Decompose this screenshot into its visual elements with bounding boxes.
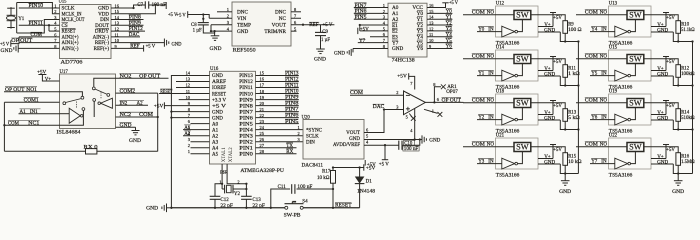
svg-text:SW: SW bbox=[629, 143, 642, 152]
wire to DAC SCLK pin 2 bbox=[256, 131, 304, 136]
wire V+ pin of U15 to +5V bbox=[651, 57, 675, 72]
wire COM loop left bbox=[3, 102, 85, 151]
svg-text:Y2: Y2 bbox=[446, 21, 453, 26]
svg-text:DAC: DAC bbox=[373, 105, 385, 110]
net A1 to IN1 bbox=[19, 109, 60, 115]
svg-text:1 µF: 1 µF bbox=[193, 28, 202, 33]
svg-text:REF(-): REF(-) bbox=[95, 41, 110, 46]
power +5V at AIN2 bbox=[0, 37, 19, 47]
svg-text:V+: V+ bbox=[657, 67, 664, 72]
svg-text:R17: R17 bbox=[322, 170, 331, 175]
74HC138 pin numbers bbox=[383, 3, 434, 49]
svg-text:+5V: +5V bbox=[553, 104, 562, 109]
svg-text:COM1: COM1 bbox=[24, 98, 40, 103]
74HC138 pin names bbox=[392, 5, 424, 52]
op-amp pin 1 no-connect bbox=[424, 109, 442, 117]
net COM1 pin bbox=[4, 97, 59, 103]
net Y1 IN into U14 bbox=[477, 70, 502, 76]
svg-text:COM: COM bbox=[472, 98, 486, 103]
svg-text:12: 12 bbox=[186, 83, 190, 88]
wire SW control of U12 bbox=[518, 20, 523, 32]
svg-text:NO: NO bbox=[600, 142, 608, 147]
switch ch1 NC contact bbox=[60, 108, 85, 126]
svg-text:PIN13: PIN13 bbox=[285, 72, 299, 77]
svg-text:21: 21 bbox=[260, 107, 264, 112]
power +5V at VIN bbox=[177, 11, 210, 18]
svg-text:SW: SW bbox=[629, 55, 642, 64]
wire U22 column to ground bbox=[677, 174, 679, 181]
svg-text:SW: SW bbox=[629, 99, 642, 108]
ground at AIN1(-) pin 8 bbox=[1, 44, 60, 54]
svg-text:COM: COM bbox=[472, 142, 486, 147]
svg-text:11: 11 bbox=[186, 89, 190, 94]
net Y5 IN into U15 bbox=[590, 70, 615, 76]
svg-text:R9: R9 bbox=[568, 22, 574, 27]
ground below U17 bbox=[129, 131, 141, 145]
svg-text:Y2: Y2 bbox=[234, 192, 241, 197]
svg-text:Y6: Y6 bbox=[446, 45, 453, 50]
net REF +5V on VOUT pin 6 bbox=[291, 22, 334, 28]
svg-text:GND: GND bbox=[210, 47, 222, 52]
ATMEGA XTAL pin names bbox=[222, 147, 234, 162]
net IN2 to A2 bbox=[116, 100, 149, 106]
inverter of U15 bbox=[615, 70, 631, 81]
svg-text:PIN11: PIN11 bbox=[285, 84, 299, 89]
wire R9 bottom junction bbox=[564, 33, 580, 42]
wire Y1 top to MCLK_IN pin 2 bbox=[17, 3, 60, 14]
svg-text:U16: U16 bbox=[210, 67, 219, 72]
switch ch1 NO contact bbox=[60, 92, 84, 99]
IC U14 TS5A3166 switch body bbox=[496, 45, 539, 90]
svg-text:PIN12: PIN12 bbox=[285, 78, 299, 83]
wire GND pin of U19 bbox=[651, 116, 678, 129]
wire E3 stub bbox=[370, 36, 388, 38]
AD7706 right pin numbers 16-9 bbox=[115, 3, 120, 48]
inverter of U14 bbox=[502, 70, 518, 81]
power +5V top right bbox=[166, 2, 178, 18]
wire SW output of U19 bbox=[644, 103, 678, 109]
IC U15 TS5A3166 switch body bbox=[609, 45, 652, 90]
svg-text:GND: GND bbox=[212, 116, 223, 121]
svg-text:NO: NO bbox=[600, 10, 608, 15]
svg-text:V+: V+ bbox=[544, 23, 551, 28]
svg-text:SW-PB: SW-PB bbox=[284, 214, 302, 219]
svg-text:+5V: +5V bbox=[666, 104, 675, 109]
svg-text:PIN11: PIN11 bbox=[29, 22, 44, 27]
wire SW control of U15 bbox=[631, 64, 636, 76]
wire IOREF stub bbox=[176, 87, 210, 89]
svg-text:*SYNC: *SYNC bbox=[306, 128, 323, 133]
wire GND pin of U14 bbox=[538, 72, 565, 85]
svg-text:OP OUT: OP OUT bbox=[11, 39, 32, 44]
switch box SW of U21 bbox=[514, 143, 531, 152]
wire U17 GND pin bbox=[116, 123, 136, 131]
power +5V at pin 9 bbox=[154, 102, 210, 109]
svg-text:COM: COM bbox=[585, 10, 599, 15]
net A2 to pin 4 bbox=[183, 131, 210, 137]
power +5V reset bbox=[364, 164, 376, 171]
svg-text:V+: V+ bbox=[544, 67, 551, 72]
net Y3 IN into U21 bbox=[477, 158, 502, 164]
wire to DAC SYNC pin 1 bbox=[256, 125, 304, 130]
svg-text:GND: GND bbox=[657, 72, 668, 77]
svg-text:V+: V+ bbox=[657, 23, 664, 28]
net RESET to pin 11 bbox=[159, 89, 210, 95]
ground of U21 column bbox=[559, 181, 571, 195]
svg-text:NO: NO bbox=[487, 98, 495, 103]
net COM NO into U15 bbox=[576, 53, 627, 59]
svg-text:REF: REF bbox=[309, 23, 318, 28]
net PIN5 to A2 bbox=[354, 15, 388, 21]
svg-text:U12: U12 bbox=[496, 1, 505, 6]
svg-text:IN1: IN1 bbox=[30, 110, 38, 115]
svg-text:IN: IN bbox=[488, 27, 494, 32]
inverter of U19 bbox=[615, 114, 631, 125]
wire GND pin of U18 bbox=[538, 116, 565, 129]
svg-text:A2: A2 bbox=[212, 134, 219, 139]
buffer triangle ch1 bbox=[69, 108, 83, 123]
svg-text:PIN0: PIN0 bbox=[239, 152, 253, 157]
svg-text:AIN2(+): AIN2(+) bbox=[62, 35, 79, 40]
net PIN7 to A0 bbox=[354, 3, 388, 9]
svg-text:COM: COM bbox=[472, 54, 486, 59]
resistor R14 510kΩ bbox=[676, 109, 695, 122]
svg-text:PIN1: PIN1 bbox=[239, 146, 253, 151]
wire to C12 bbox=[215, 183, 223, 196]
svg-text:22 pF: 22 pF bbox=[252, 204, 265, 209]
svg-text:TS5A3166: TS5A3166 bbox=[496, 174, 520, 179]
svg-text:C11: C11 bbox=[278, 185, 287, 190]
svg-text:GND: GND bbox=[314, 58, 326, 63]
svg-text:C12: C12 bbox=[220, 198, 229, 203]
svg-text:SW: SW bbox=[629, 11, 642, 20]
svg-text:SCLK: SCLK bbox=[62, 7, 75, 12]
resistor R12 100kΩ bbox=[676, 65, 695, 78]
switch box SW of U12 bbox=[514, 11, 531, 20]
svg-text:Y6: Y6 bbox=[591, 115, 598, 120]
svg-text:VOUT: VOUT bbox=[272, 22, 287, 28]
svg-text:IN: IN bbox=[601, 27, 607, 32]
svg-text:DRDY: DRDY bbox=[95, 30, 110, 35]
ground at 74HC138 GND pin bbox=[334, 48, 388, 56]
svg-text:Y6: Y6 bbox=[417, 46, 424, 52]
svg-text:AIN2(-): AIN2(-) bbox=[93, 35, 110, 40]
svg-text:A1: A1 bbox=[212, 128, 219, 133]
svg-text:GND: GND bbox=[146, 206, 158, 211]
svg-text:74HC138: 74HC138 bbox=[392, 57, 415, 63]
net Y2 IN into U18 bbox=[477, 114, 502, 120]
net Y4 IN into U13 bbox=[590, 26, 615, 32]
svg-text:Y4: Y4 bbox=[446, 33, 453, 38]
wire R10 bottom junction bbox=[677, 33, 694, 42]
svg-text:GND: GND bbox=[544, 160, 555, 165]
svg-text:+5V: +5V bbox=[666, 148, 675, 153]
svg-text:GND: GND bbox=[559, 190, 571, 195]
IC U15 AD7706 body bbox=[59, 0, 112, 65]
svg-text:AIN1(-): AIN1(-) bbox=[62, 47, 79, 52]
wire R12 bottom junction bbox=[677, 77, 694, 86]
svg-text:XTAL2: XTAL2 bbox=[229, 147, 234, 162]
net COM NO into U21 bbox=[463, 141, 514, 147]
IC REF5050 body bbox=[232, 2, 291, 53]
svg-text:51.1kΩ: 51.1kΩ bbox=[681, 28, 695, 33]
svg-text:PIN8: PIN8 bbox=[239, 104, 253, 109]
AD7706 left pin numbers 1-8 bbox=[54, 3, 57, 48]
net Y7 output bbox=[358, 39, 388, 44]
net PIN11 to CS pin 4 bbox=[19, 21, 60, 27]
IC U20 DAC8411 body bbox=[302, 115, 365, 168]
switch box SW of U14 bbox=[514, 55, 531, 64]
svg-text:A1: A1 bbox=[184, 126, 191, 131]
svg-text:TEMP: TEMP bbox=[237, 22, 251, 28]
capacitor C12 22pF bbox=[210, 196, 233, 209]
net PIN9 on DOUT pin 13 bbox=[111, 20, 144, 26]
net RX pin 28 bbox=[256, 149, 297, 155]
svg-text:22: 22 bbox=[260, 113, 264, 118]
wire R14 bottom junction bbox=[677, 121, 694, 130]
net COM NO into U19 bbox=[576, 97, 627, 103]
svg-text:PIN5: PIN5 bbox=[239, 122, 253, 127]
svg-text:RESET: RESET bbox=[160, 90, 172, 95]
wire V+ pin of U18 to +5V bbox=[538, 101, 562, 116]
svg-text:RESET: RESET bbox=[62, 30, 76, 35]
svg-text:PIN6: PIN6 bbox=[355, 10, 368, 15]
svg-text:DIN: DIN bbox=[100, 18, 109, 23]
svg-text:SW: SW bbox=[516, 143, 529, 152]
net COM2 pin bbox=[116, 88, 158, 94]
svg-text:TRIM/NR: TRIM/NR bbox=[264, 29, 286, 35]
resistor R16 1.5MΩ bbox=[676, 153, 695, 166]
svg-text:2: 2 bbox=[188, 143, 190, 148]
switch ch2 NC contact bbox=[93, 99, 96, 118]
wire TRIM pin5 stub bbox=[291, 30, 297, 32]
svg-text:1N4148: 1N4148 bbox=[357, 189, 376, 194]
svg-text:V+: V+ bbox=[657, 155, 664, 160]
svg-text:GND: GND bbox=[212, 110, 223, 115]
svg-text:PIN8: PIN8 bbox=[129, 16, 142, 21]
capacitor C8 1uF bbox=[191, 15, 209, 34]
wire GND pin16 riser bbox=[111, 5, 145, 9]
svg-text:PIN6: PIN6 bbox=[239, 116, 253, 121]
svg-text:22 pF: 22 pF bbox=[220, 204, 233, 209]
svg-text:V+: V+ bbox=[544, 111, 551, 116]
svg-text:+5V: +5V bbox=[360, 28, 369, 33]
svg-text:D1: D1 bbox=[366, 179, 373, 184]
svg-text:GND: GND bbox=[129, 139, 141, 144]
svg-text:SW: SW bbox=[516, 11, 529, 20]
net PIN12 on DRDY pin 12 bbox=[111, 26, 145, 32]
capacitor C11 100nF bbox=[278, 184, 313, 194]
nets Y0-Y6 outputs bbox=[427, 9, 452, 15]
svg-text:GND: GND bbox=[672, 190, 684, 195]
svg-text:R12: R12 bbox=[681, 66, 690, 71]
diode D1 1N4148 bbox=[355, 168, 376, 208]
svg-text:10 kΩ: 10 kΩ bbox=[317, 176, 330, 181]
resistor R15 10 kΩ bbox=[563, 153, 582, 166]
svg-text:MCLK_IN: MCLK_IN bbox=[62, 12, 82, 17]
switch ch1 COM pole bbox=[63, 99, 81, 105]
svg-text:GND: GND bbox=[392, 46, 403, 52]
wire right column ground bus bbox=[692, 42, 694, 174]
svg-text:V+: V+ bbox=[45, 77, 52, 82]
svg-text:PIN9: PIN9 bbox=[129, 21, 142, 26]
svg-text:U22: U22 bbox=[609, 133, 618, 138]
power +5V at E2 bbox=[358, 28, 369, 35]
svg-text:VIN: VIN bbox=[237, 16, 246, 22]
svg-text:R10: R10 bbox=[681, 22, 690, 27]
IC U13 TS5A3166 switch body bbox=[609, 1, 652, 46]
wire SW output of U21 bbox=[531, 147, 565, 153]
svg-text:100 Ω: 100 Ω bbox=[568, 28, 582, 33]
crystal Y2 bbox=[219, 179, 247, 197]
wire A3 stub bbox=[191, 141, 210, 143]
net COM NO into U13 bbox=[576, 9, 627, 15]
svg-text:SCLK: SCLK bbox=[306, 134, 319, 139]
svg-text:PIN10: PIN10 bbox=[285, 90, 299, 95]
svg-text:DNC: DNC bbox=[237, 10, 248, 16]
svg-text:OP OUT: OP OUT bbox=[442, 98, 462, 103]
op-amp pin 4 to ground bbox=[410, 109, 416, 141]
svg-text:2: 2 bbox=[237, 179, 239, 184]
net COM NO into U12 bbox=[463, 9, 514, 15]
svg-text:NO: NO bbox=[600, 98, 608, 103]
svg-text:+5 V: +5 V bbox=[146, 44, 156, 49]
wire SW output of U12 bbox=[531, 15, 565, 21]
svg-text:GND: GND bbox=[237, 29, 248, 35]
switch box SW of U22 bbox=[627, 143, 644, 152]
wire SW output of U22 bbox=[644, 147, 678, 153]
svg-text:+5 V: +5 V bbox=[449, 1, 458, 6]
svg-text:NO2: NO2 bbox=[120, 74, 133, 79]
svg-text:Y1: Y1 bbox=[478, 71, 485, 76]
net PIN10 to SCLK pin 1 bbox=[19, 3, 60, 9]
wire A0 stub bbox=[191, 123, 210, 125]
wire AREF stub bbox=[176, 81, 210, 83]
wire R17 D1 to +5V bbox=[332, 166, 364, 168]
svg-text:COM: COM bbox=[8, 121, 20, 126]
wire COM2 to NC1 loop bbox=[157, 93, 159, 151]
wire GND pin of U13 bbox=[651, 28, 678, 41]
svg-text:NC1: NC1 bbox=[28, 121, 40, 126]
svg-text:Y1: Y1 bbox=[446, 15, 453, 20]
svg-text:R13: R13 bbox=[568, 110, 577, 115]
svg-text:+5V: +5V bbox=[367, 163, 377, 168]
power +5V under DAC bbox=[365, 160, 376, 168]
svg-text:RX: RX bbox=[286, 150, 293, 155]
svg-text:COM: COM bbox=[585, 54, 599, 59]
svg-text:DIN: DIN bbox=[306, 140, 315, 145]
svg-text:AREF: AREF bbox=[212, 80, 226, 85]
ground below REF5050 bbox=[210, 36, 222, 52]
svg-text:GND: GND bbox=[544, 116, 555, 121]
svg-text:PIN12: PIN12 bbox=[129, 27, 144, 32]
wire VDD pin15 riser to +5V bbox=[111, 4, 166, 14]
svg-text:R15: R15 bbox=[568, 154, 577, 159]
svg-text:10 kΩ: 10 kΩ bbox=[568, 160, 582, 165]
wire SW output of U13 bbox=[644, 15, 678, 21]
IC U16 ATMEGA328P-PU body bbox=[210, 67, 285, 174]
net OP OUT to AIN1(+) pin 7 bbox=[11, 38, 59, 44]
net DAC from VOUT pin 6 bbox=[364, 104, 404, 132]
ATMEGA right pin names bbox=[239, 74, 253, 157]
svg-text:R16: R16 bbox=[681, 154, 690, 159]
svg-text:Y0: Y0 bbox=[478, 27, 485, 32]
net Y0 IN into U12 bbox=[477, 26, 502, 32]
svg-text:1: 1 bbox=[298, 125, 300, 130]
svg-text:A2: A2 bbox=[137, 101, 144, 106]
wire XTAL2 pin down bbox=[227, 164, 247, 185]
svg-text:+3.3 V: +3.3 V bbox=[212, 98, 226, 103]
svg-text:+5V: +5V bbox=[154, 105, 164, 110]
wire left column ground bus bbox=[577, 42, 579, 174]
svg-text:A4: A4 bbox=[212, 146, 219, 151]
wire SW output of U18 bbox=[531, 103, 565, 109]
REF5050 pin numbers bbox=[227, 7, 297, 31]
svg-text:U13: U13 bbox=[609, 1, 618, 6]
net NO2 to OP OUT bbox=[116, 73, 169, 79]
svg-text:RESET: RESET bbox=[335, 204, 352, 209]
IC U12 TS5A3166 switch body bbox=[496, 1, 539, 46]
wire V+ pin of U13 to +5V bbox=[651, 13, 675, 28]
svg-text:PIN8: PIN8 bbox=[285, 102, 299, 107]
svg-text:S4: S4 bbox=[302, 200, 308, 205]
ground right of DAC bbox=[422, 135, 441, 143]
net REF +5V on REF(+) pin 9 bbox=[111, 43, 155, 51]
capacitor C7 100nF bbox=[137, 1, 166, 8]
svg-text:Y5: Y5 bbox=[446, 39, 453, 44]
wire GND pin14 to ground rail bbox=[171, 76, 209, 208]
svg-text:Y0: Y0 bbox=[446, 10, 453, 15]
svg-text:VDD: VDD bbox=[98, 12, 109, 17]
wire GND pin of U22 bbox=[651, 160, 678, 173]
svg-text:COM2: COM2 bbox=[120, 89, 136, 94]
svg-text:V+: V+ bbox=[657, 111, 664, 116]
wire R13 bottom junction bbox=[564, 121, 580, 130]
net Y7 IN into U22 bbox=[590, 158, 615, 164]
svg-text:COM: COM bbox=[31, 33, 43, 38]
IC 74HC138 body bbox=[388, 3, 427, 63]
IC U17 ISL84684 body bbox=[57, 70, 116, 136]
resistor R9 100 Ω bbox=[563, 21, 582, 34]
svg-text:RX 0: RX 0 bbox=[84, 145, 99, 150]
IC U22 TS5A3166 switch body bbox=[609, 133, 652, 178]
wire DNC pin1 stub bbox=[217, 11, 232, 13]
wire to C13 bbox=[245, 184, 247, 196]
AD7706 left pin names bbox=[62, 7, 85, 52]
svg-text:+5 V: +5 V bbox=[177, 14, 187, 19]
resistor R11 1 kΩ bbox=[563, 65, 580, 78]
svg-text:IN: IN bbox=[488, 159, 494, 164]
wire GND pins 8 7 bbox=[170, 110, 209, 118]
svg-text:NO1: NO1 bbox=[26, 88, 37, 93]
svg-text:COM: COM bbox=[350, 91, 364, 96]
op-amp AR1 triangle bbox=[404, 91, 426, 115]
svg-text:A2: A2 bbox=[184, 132, 191, 137]
net OP OUT to NO1 bbox=[4, 87, 60, 93]
capacitor C9 1uF bbox=[315, 25, 330, 49]
svg-text:PIN9: PIN9 bbox=[285, 96, 299, 101]
svg-text:C7: C7 bbox=[137, 3, 143, 8]
svg-text:U18: U18 bbox=[496, 89, 505, 94]
svg-text:U14: U14 bbox=[496, 45, 505, 50]
svg-text:+5V: +5V bbox=[666, 16, 675, 21]
svg-text:AIN1(+): AIN1(+) bbox=[62, 41, 79, 46]
svg-text:NO: NO bbox=[600, 54, 608, 59]
switch box SW of U19 bbox=[627, 99, 644, 108]
svg-text:AVDD/VREF: AVDD/VREF bbox=[333, 143, 360, 148]
svg-text:R14: R14 bbox=[681, 110, 690, 115]
svg-text:SW: SW bbox=[516, 99, 529, 108]
